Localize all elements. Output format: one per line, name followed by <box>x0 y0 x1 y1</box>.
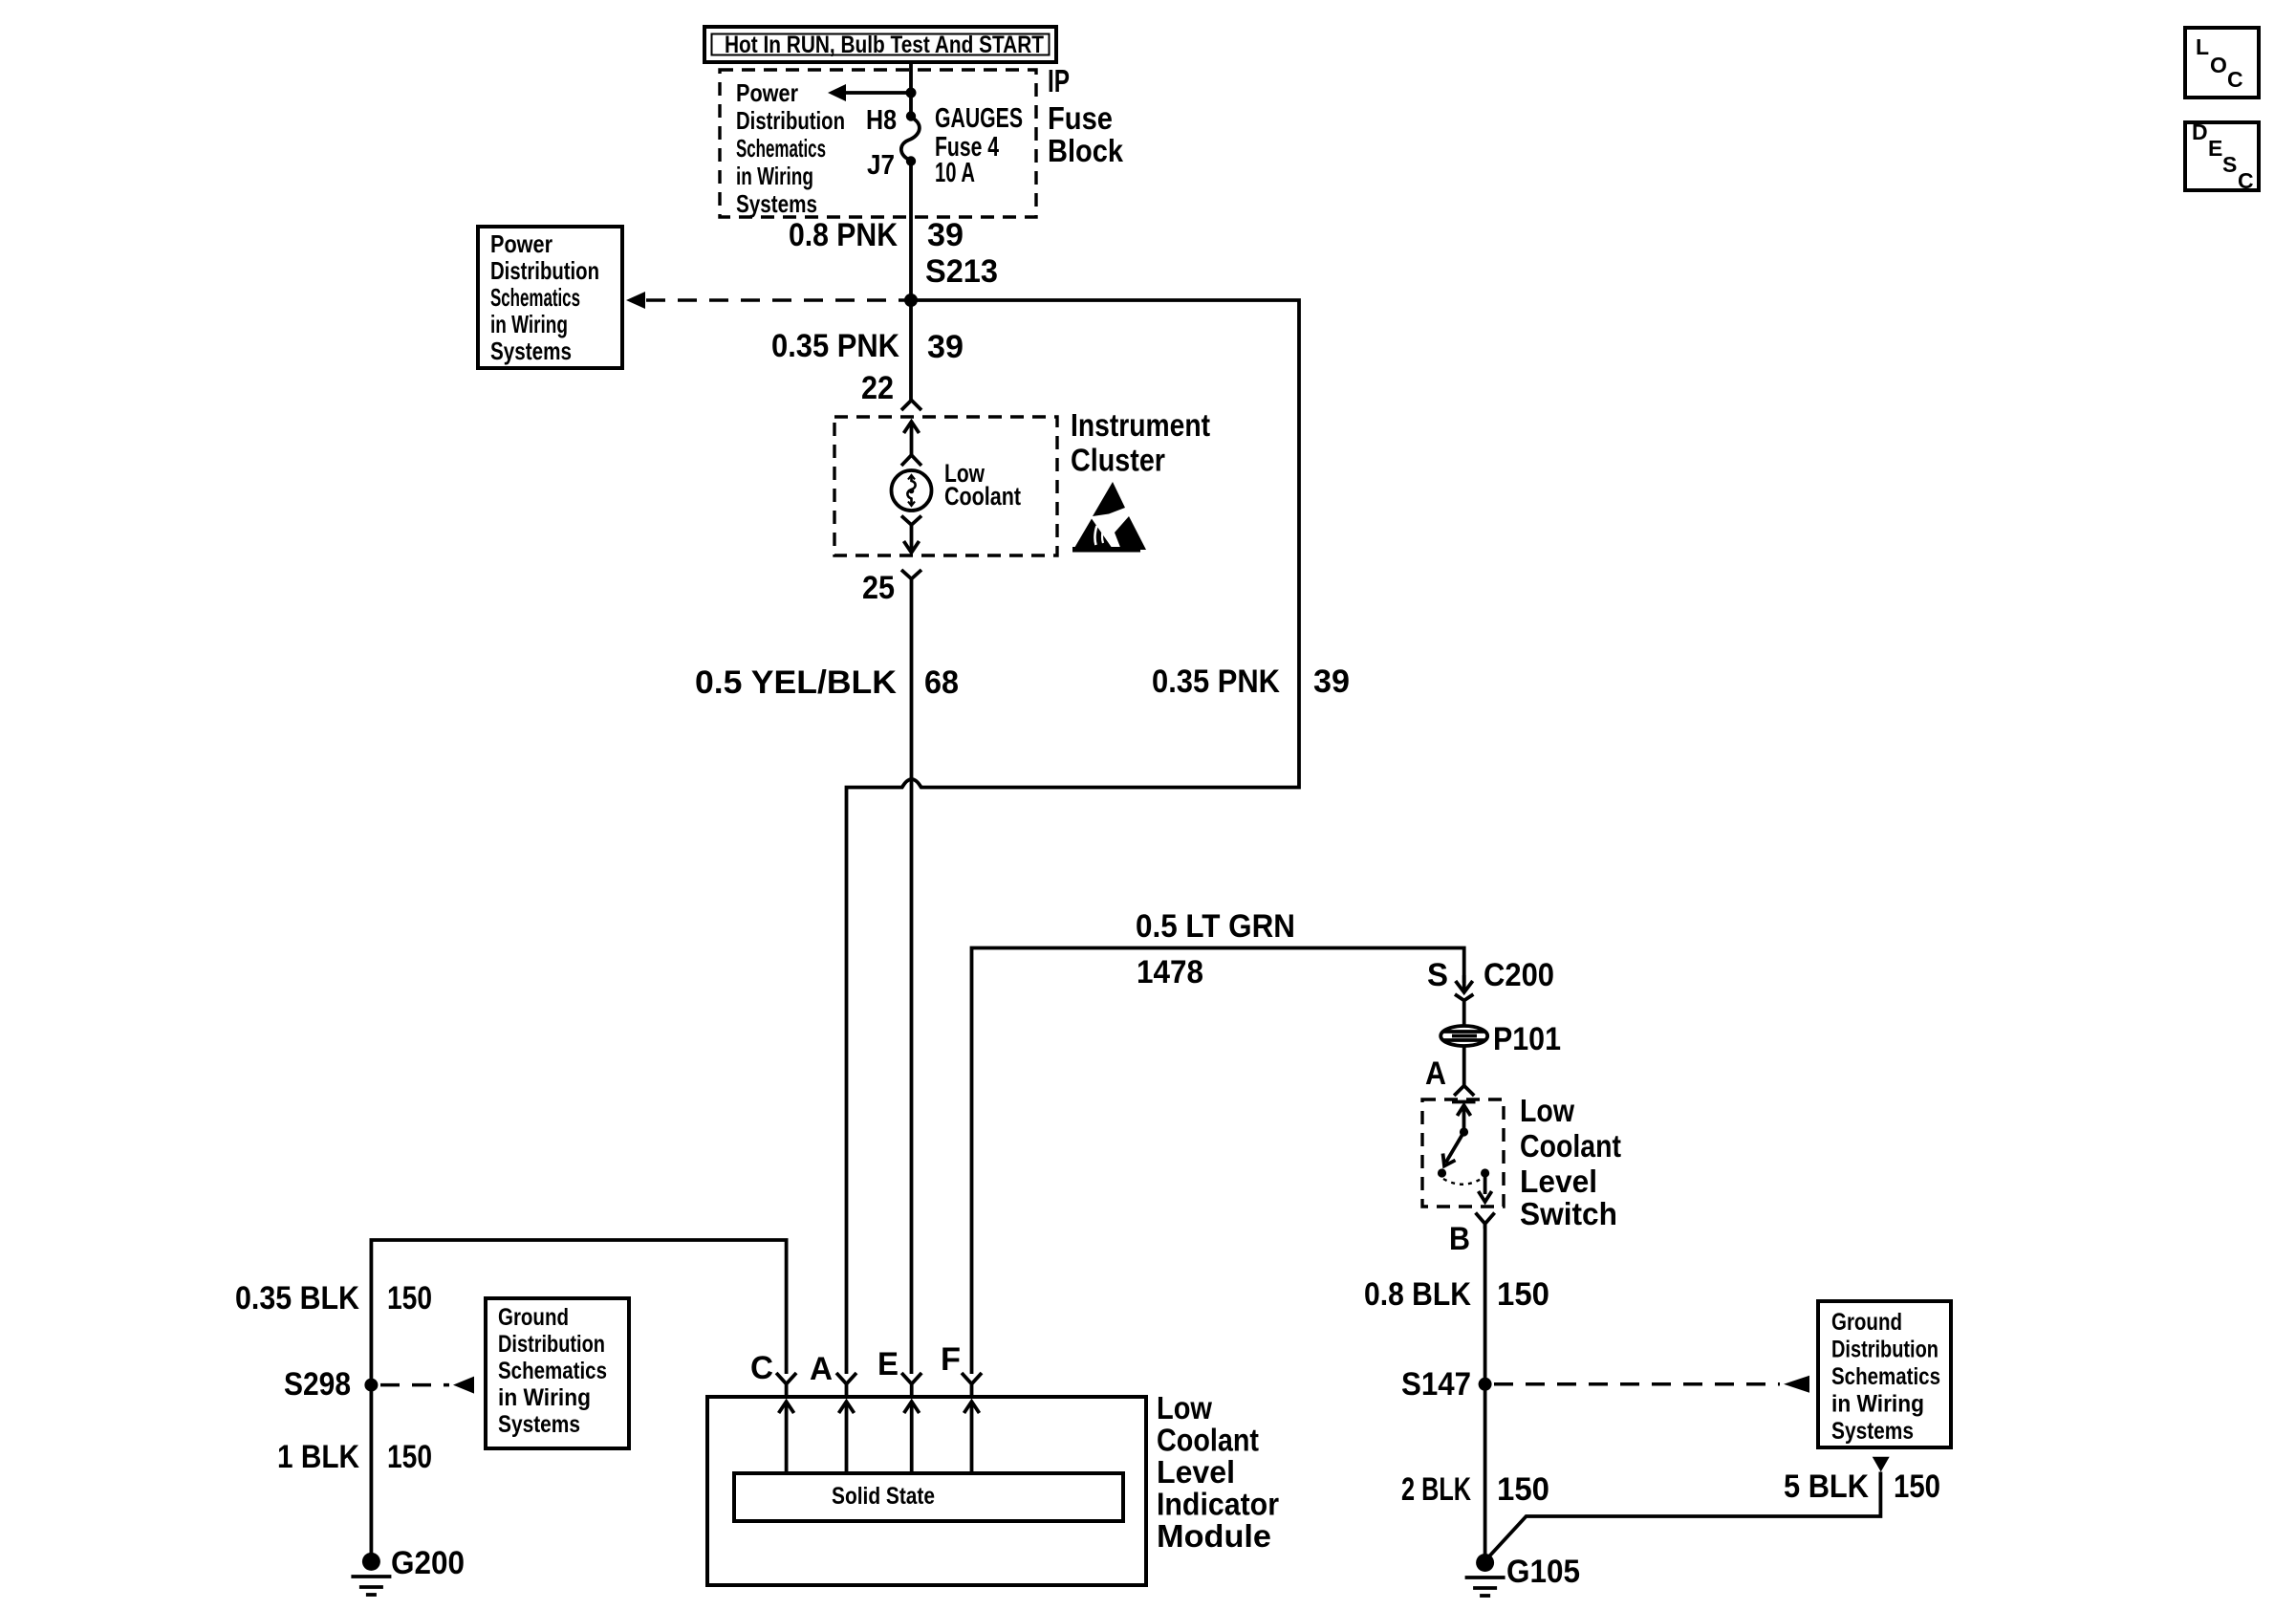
svg-text:5 BLK: 5 BLK <box>1784 1469 1869 1505</box>
grommet P101 <box>1440 1026 1487 1046</box>
ground distribution schematics reference box (right) <box>1818 1301 1951 1447</box>
svg-text:P101: P101 <box>1493 1021 1561 1057</box>
svg-text:Systems: Systems <box>1831 1418 1914 1445</box>
svg-text:0.35 PNK: 0.35 PNK <box>771 328 899 364</box>
label 0.5 LT GRN 1478 <box>1136 908 1295 990</box>
label Instrument Cluster <box>1071 407 1210 478</box>
low coolant level switch dashed box <box>1422 1099 1504 1207</box>
wire 0.35 PNK branch from S213 to module pin A <box>847 300 1300 1374</box>
svg-text:B: B <box>1449 1221 1470 1257</box>
svg-text:Module: Module <box>1157 1518 1271 1554</box>
svg-text:Indicator: Indicator <box>1157 1487 1279 1522</box>
text Power Distribution Schematics in Wiring Systems (fuse block) <box>736 78 845 218</box>
junction dot in fuse block <box>906 88 917 98</box>
pin A arrow inside module <box>839 1402 855 1473</box>
svg-text:0.5 LT GRN: 0.5 LT GRN <box>1136 908 1295 945</box>
svg-text:150: 150 <box>1497 1471 1549 1508</box>
dashed reference line to ground distribution box (left) <box>380 1377 474 1394</box>
svg-text:Block: Block <box>1048 133 1124 168</box>
svg-text:D: D <box>2192 120 2208 144</box>
svg-text:150: 150 <box>1894 1469 1940 1505</box>
svg-text:Schematics: Schematics <box>736 134 826 163</box>
svg-text:39: 39 <box>1313 664 1350 700</box>
svg-text:in Wiring: in Wiring <box>736 162 813 190</box>
connector C200 female chevron <box>1455 994 1473 1005</box>
svg-text:A: A <box>1425 1055 1446 1092</box>
switch down arrow to pin B <box>1479 1177 1492 1202</box>
svg-text:S213: S213 <box>925 253 998 290</box>
label Low Coolant <box>944 459 1021 511</box>
svg-text:150: 150 <box>387 1439 432 1475</box>
pin A chevron (module) <box>836 1373 856 1397</box>
wire from C200 to P101 <box>1462 1005 1466 1026</box>
svg-text:Schematics: Schematics <box>1831 1363 1940 1390</box>
svg-text:1 BLK: 1 BLK <box>277 1439 359 1475</box>
switch blade with arrow <box>1443 1132 1464 1166</box>
instrument cluster dashed box <box>834 417 1057 555</box>
svg-text:Systems: Systems <box>490 337 572 365</box>
pin C chevron <box>776 1373 796 1397</box>
svg-text:68: 68 <box>924 664 959 701</box>
svg-text:0.8 BLK: 0.8 BLK <box>1364 1276 1471 1313</box>
dashed reference line to ground distribution box (right) <box>1494 1376 1809 1393</box>
switch pivot dot <box>1460 1127 1468 1136</box>
svg-text:Ground: Ground <box>1831 1309 1902 1336</box>
ground distribution schematics reference box (left) <box>486 1298 629 1448</box>
connector C200 male arrow <box>1456 975 1473 992</box>
svg-text:L: L <box>2196 34 2209 59</box>
splice S147 <box>1479 1378 1492 1391</box>
pin F chevron (module) <box>962 1373 982 1397</box>
pin B chevron <box>1476 1213 1495 1229</box>
svg-text:J7: J7 <box>867 150 895 181</box>
fuse element GAUGES Fuse 4 10 A <box>901 118 920 161</box>
label 0.35 PNK 39 (right branch) <box>1152 664 1350 700</box>
svg-text:F: F <box>941 1341 961 1378</box>
label 0.8 PNK 39 <box>789 217 964 253</box>
label 0.35 PNK 39 <box>771 328 964 365</box>
svg-text:G200: G200 <box>391 1545 465 1581</box>
svg-text:H8: H8 <box>866 105 897 136</box>
svg-text:Coolant: Coolant <box>1157 1423 1259 1458</box>
svg-text:0.5 YEL/BLK: 0.5 YEL/BLK <box>695 664 897 701</box>
svg-text:C: C <box>750 1350 773 1386</box>
svg-text:Fuse: Fuse <box>1048 100 1113 136</box>
pin E chevron (module) <box>901 1373 921 1397</box>
DESC page marker box <box>2185 120 2259 193</box>
svg-text:Power: Power <box>490 229 552 258</box>
svg-text:Systems: Systems <box>736 189 817 218</box>
ground G200 <box>351 1553 391 1595</box>
svg-text:Solid State: Solid State <box>832 1483 935 1510</box>
connector chevron pin 22 <box>901 401 921 411</box>
wire 0.35 PNK from S213 to instrument cluster <box>909 300 913 400</box>
svg-text:Distribution: Distribution <box>498 1331 605 1358</box>
pin A chevron <box>1454 1086 1474 1097</box>
svg-text:0.35 PNK: 0.35 PNK <box>1152 664 1280 700</box>
pin E arrow inside module <box>904 1402 920 1473</box>
svg-text:Low: Low <box>1157 1390 1212 1425</box>
svg-text:GAUGES: GAUGES <box>935 103 1023 134</box>
svg-text:in Wiring: in Wiring <box>1831 1391 1924 1418</box>
lamp output chevron <box>901 516 921 533</box>
label 5 BLK 150 <box>1784 1469 1940 1505</box>
labels GAUGES Fuse 4 10 A <box>935 103 1023 188</box>
svg-text:Ground: Ground <box>498 1304 569 1331</box>
svg-text:S147: S147 <box>1401 1366 1471 1403</box>
svg-text:in Wiring: in Wiring <box>498 1384 591 1411</box>
svg-text:0.8 PNK: 0.8 PNK <box>789 217 898 253</box>
solid state box <box>734 1473 1123 1521</box>
wire 5 BLK from G105 to ground distribution box <box>1487 1472 1880 1559</box>
svg-text:150: 150 <box>1497 1276 1549 1313</box>
switch right contact dot <box>1481 1168 1489 1177</box>
svg-text:39: 39 <box>927 329 964 365</box>
switch stationary contact dot <box>1438 1168 1446 1177</box>
ground G105 <box>1465 1554 1505 1596</box>
label 1 BLK 150 <box>277 1439 432 1475</box>
svg-text:Cluster: Cluster <box>1071 443 1165 478</box>
label 0.35 BLK 150 <box>235 1280 432 1316</box>
svg-text:25: 25 <box>862 570 895 606</box>
switch dashed travel arc <box>1443 1178 1483 1185</box>
ESD sensitivity symbol <box>1072 482 1146 553</box>
svg-text:E: E <box>877 1346 899 1382</box>
labels S C200 <box>1427 957 1554 993</box>
svg-text:150: 150 <box>387 1280 432 1316</box>
switch contact bar pin A <box>1452 1100 1476 1104</box>
svg-text:1478: 1478 <box>1137 954 1203 990</box>
fuse terminal H8 dot <box>906 111 916 120</box>
svg-text:39: 39 <box>927 217 964 253</box>
svg-text:IP: IP <box>1048 63 1070 98</box>
fuse terminal J7 dot <box>906 156 916 165</box>
svg-text:C200: C200 <box>1484 957 1554 993</box>
svg-text:C: C <box>2227 67 2243 92</box>
arrow to power distribution schematics inside fuse block <box>828 84 911 101</box>
chevron above lamp <box>901 455 921 466</box>
wire 0.8 PNK from fuse to splice S213 <box>909 161 913 300</box>
indicator lamp Low Coolant <box>892 470 932 511</box>
IP fuse block dashed box <box>720 70 1036 217</box>
down triangle at ground distribution box <box>1873 1457 1890 1472</box>
svg-text:Switch: Switch <box>1520 1196 1617 1231</box>
svg-text:Schematics: Schematics <box>490 283 580 312</box>
wire 0.5 YEL/BLK from cluster to module pin E <box>910 586 914 1374</box>
svg-text:in Wiring: in Wiring <box>490 310 568 338</box>
svg-text:Schematics: Schematics <box>498 1358 607 1384</box>
svg-text:Instrument: Instrument <box>1071 407 1210 443</box>
low coolant level indicator module box <box>707 1397 1146 1585</box>
pin C arrow inside module <box>779 1402 794 1473</box>
header box Hot In RUN, Bulb Test And START <box>704 27 1056 62</box>
svg-text:2 BLK: 2 BLK <box>1401 1471 1471 1508</box>
pin 22 arrow inside cluster <box>904 422 920 456</box>
LOC page marker box <box>2185 28 2259 98</box>
svg-text:Hot In RUN, Bulb Test And STAR: Hot In RUN, Bulb Test And START <box>725 32 1044 58</box>
svg-text:Coolant: Coolant <box>1520 1128 1621 1164</box>
down arrow to pin 25 <box>904 533 920 553</box>
dashed reference line to power distribution box <box>626 292 906 309</box>
wire from P101 to switch pin A <box>1462 1046 1466 1085</box>
svg-text:A: A <box>810 1351 833 1387</box>
svg-text:Distribution: Distribution <box>736 106 845 135</box>
svg-text:S: S <box>2222 152 2237 177</box>
power distribution schematics reference box <box>478 227 622 368</box>
wire 0.8 BLK / 2 BLK from switch to G105 <box>1484 1224 1487 1555</box>
svg-text:Distribution: Distribution <box>1831 1337 1939 1363</box>
label 2 BLK 150 <box>1401 1471 1549 1508</box>
svg-text:Level: Level <box>1520 1164 1597 1199</box>
label 0.8 BLK 150 <box>1364 1276 1549 1313</box>
svg-text:O: O <box>2210 53 2227 77</box>
pin 25 chevron below cluster <box>901 570 921 586</box>
svg-text:22: 22 <box>861 370 894 406</box>
svg-text:Distribution: Distribution <box>490 256 599 285</box>
splice S213 <box>904 294 918 307</box>
label IP Fuse Block <box>1048 63 1124 168</box>
svg-text:Power: Power <box>736 78 798 107</box>
svg-text:Coolant: Coolant <box>944 482 1021 511</box>
label Low Coolant Level Indicator Module <box>1157 1390 1279 1554</box>
svg-text:Systems: Systems <box>498 1411 580 1438</box>
wire 0.35 BLK / 1 BLK left ground branch <box>371 1240 786 1555</box>
svg-text:0.35 BLK: 0.35 BLK <box>235 1280 359 1316</box>
switch up arrow <box>1458 1105 1471 1132</box>
pin F arrow inside module <box>964 1402 980 1473</box>
svg-text:G105: G105 <box>1506 1554 1580 1590</box>
label 0.5 YEL/BLK 68 <box>695 664 959 701</box>
svg-text:E: E <box>2208 136 2222 161</box>
wire from header into fuse block <box>909 60 913 116</box>
svg-text:Level: Level <box>1157 1454 1235 1490</box>
svg-text:10 A: 10 A <box>935 158 975 188</box>
svg-text:S: S <box>1427 957 1448 993</box>
label Low Coolant Level Switch <box>1520 1093 1621 1231</box>
splice S298 <box>364 1379 378 1392</box>
svg-text:Low: Low <box>1520 1093 1574 1128</box>
wire 0.5 LT GRN from C200 to module pin F <box>972 948 1464 1375</box>
svg-text:C: C <box>2238 168 2254 193</box>
svg-text:S298: S298 <box>284 1366 351 1403</box>
